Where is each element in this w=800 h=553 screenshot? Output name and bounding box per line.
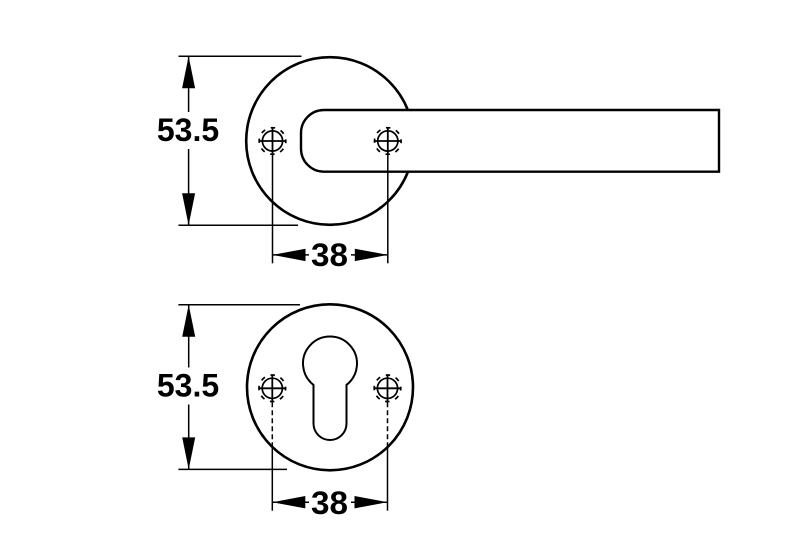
svg-text:38: 38 <box>311 237 348 273</box>
svg-text:53.5: 53.5 <box>157 112 219 148</box>
svg-text:38: 38 <box>311 485 348 521</box>
svg-text:53.5: 53.5 <box>157 368 219 404</box>
